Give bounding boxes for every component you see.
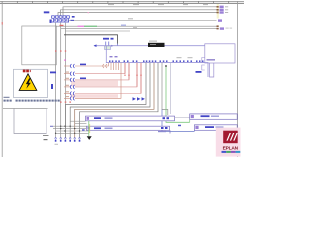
stub label: [44, 139, 48, 140]
green PE bottom wire: [88, 121, 90, 136]
tiny mark bottom left: [55, 143, 59, 146]
relay K1 label: [103, 38, 114, 40]
pink wire halos: [125, 63, 141, 93]
wire label between strips: [178, 125, 181, 127]
connector arcs: [70, 64, 74, 100]
cable label X: [50, 72, 56, 74]
strip B exit stub: [169, 130, 171, 133]
cable fan wire 3 pink: [75, 63, 129, 80]
terminal strip D: [194, 125, 237, 131]
plc box black: [148, 43, 165, 47]
control wire dark: [64, 35, 118, 44]
svg-text:EPLAN: EPLAN: [223, 146, 239, 152]
connector left hooks: [202, 58, 205, 71]
pink wire marks: [124, 75, 141, 76]
border tick red: [2, 22, 3, 25]
terminal arrow L1: [217, 6, 219, 8]
eplan logo pink bg: [216, 128, 241, 157]
terminal text smudges right: [225, 6, 228, 13]
crossing line into A1: [70, 120, 85, 122]
right drop wire gray: [162, 63, 168, 115]
cable stub v4: [115, 63, 117, 70]
wire label L1: [80, 64, 86, 66]
plc box highlight: [150, 44, 156, 45]
stub into box D: [193, 130, 195, 131]
breaker aux text: [50, 16, 75, 23]
cable stubs left: [64, 66, 70, 98]
junction dot K1: [111, 45, 113, 47]
blue arrows mid: [133, 97, 145, 100]
plc box top label: [149, 41, 157, 42]
terminal arrow L2: [217, 9, 219, 11]
bus wire L3: [58, 13, 217, 16]
cable fan wire 4 pink: [75, 63, 137, 87]
cable stub v3: [113, 63, 115, 70]
wire W label: [196, 71, 202, 73]
strip C end marks: [191, 115, 194, 118]
lavender drop wire: [106, 46, 208, 77]
strip B end marks: [87, 127, 90, 130]
cable stub v5: [118, 63, 120, 70]
wire end rings: [55, 138, 80, 140]
return wire 3 brown: [75, 63, 154, 138]
mid arcs on line1: [103, 64, 107, 68]
eplan red box: [223, 131, 238, 144]
eplan stripes: [226, 133, 237, 141]
strip B aux label: [82, 129, 85, 130]
ground symbol: [87, 136, 92, 140]
warning title: [23, 70, 31, 73]
bottom left stub wire: [43, 134, 49, 136]
warning box: [14, 69, 48, 97]
terminal block L1: [220, 6, 224, 8]
warning tiny text row: [4, 97, 60, 102]
strip D end marks: [195, 126, 198, 129]
cable highlight band 2: [71, 94, 118, 98]
yellow PE mark: [89, 124, 91, 133]
cable highlight band 1: [71, 81, 118, 87]
note empty box: [14, 108, 47, 133]
breaker group symbols: [52, 16, 70, 22]
cable fan wire 1: [75, 63, 109, 66]
bottom wire labels: [55, 140, 80, 142]
bus lavender 1: [94, 45, 205, 47]
tiny label mid bus: [121, 25, 126, 26]
wire label L2: [80, 78, 86, 80]
N line label: [128, 18, 133, 19]
cable fan wire 5 pink: [75, 63, 141, 94]
feeder wire down A: [55, 23, 57, 138]
bus wire N: [68, 20, 217, 22]
link strip A to box C: [175, 117, 190, 119]
terminal arrow y29: [217, 28, 219, 30]
stub into box C: [189, 119, 191, 122]
wire number labels above bus2: [109, 60, 204, 62]
arrow head lavender: [94, 44, 97, 47]
red label near cluster: [60, 25, 64, 26]
return wire 4: [80, 63, 159, 138]
ruler text smudges: [108, 4, 208, 5]
feeder wire down C: [64, 23, 66, 138]
green junction dot: [165, 65, 167, 67]
ruler ticks: [2, 1, 229, 3]
cable fan wire 2 pink: [75, 63, 125, 74]
left page border: [1, 1, 3, 157]
cable label vertical: [51, 84, 53, 89]
faint drop wire: [169, 63, 171, 114]
terminal block N: [218, 19, 222, 21]
pink dot top: [88, 12, 90, 13]
wire segment magenta: [78, 25, 85, 27]
return wire 2: [70, 63, 150, 138]
terminal block L2: [220, 9, 224, 11]
structure inner box top-left: [22, 26, 57, 65]
relay pin text: [110, 56, 118, 57]
highlight column yellow: [217, 4, 219, 19]
tiny gray text above labels: [177, 57, 182, 58]
warning triangle: [19, 74, 37, 91]
top ruler band line upper: [0, 0, 244, 2]
green PE wire: [166, 66, 190, 122]
cable fan wire 6: [75, 63, 121, 99]
feeder wire down B: [60, 23, 62, 138]
right drop wire to box D: [162, 110, 194, 132]
terminal strip A: [86, 116, 175, 121]
strip B bottom label: [158, 131, 166, 132]
branch wire y31.2: [65, 30, 130, 32]
strip A text: [94, 117, 101, 119]
cable stub v2: [110, 63, 112, 70]
junction dots on crossings: [55, 126, 80, 135]
breaker F1 label: [44, 11, 50, 13]
branch wire y26: [56, 25, 217, 27]
crossing line into A2: [75, 123, 87, 125]
strip C text: [201, 115, 210, 117]
crossing line into B2: [56, 132, 89, 134]
magenta dot: [64, 60, 65, 61]
connector legs: [210, 63, 214, 77]
top ruler band line lower: [0, 2, 244, 4]
wire segment green: [84, 25, 97, 27]
branch wire y28.7: [61, 28, 217, 30]
terminal strip B: [86, 126, 169, 130]
bus wire L1: [63, 7, 217, 16]
connector box right: [205, 44, 235, 63]
tiny label mid bus2: [133, 27, 137, 28]
return wire 1: [65, 63, 146, 138]
strip A end marks: [87, 117, 90, 120]
bottom tiny text: [50, 126, 53, 127]
connector box inner text: [207, 59, 216, 61]
strip B text: [94, 127, 101, 129]
lightning bolt: [26, 78, 31, 88]
terminal strip C: [190, 114, 238, 119]
eplan rainbow bar: [222, 151, 241, 153]
bus wire L2: [61, 10, 217, 16]
note line above box: [3, 107, 48, 109]
red junction dots: [55, 50, 71, 102]
crossing line into B1: [53, 125, 86, 127]
strip D text: [205, 126, 214, 128]
bus lavender 2: [106, 62, 208, 64]
terminal block L3: [220, 11, 224, 13]
terminal arrow L3: [217, 12, 219, 14]
contactor contact: [105, 42, 118, 50]
right page border: [237, 1, 239, 157]
cable core tiny labels: [66, 72, 69, 98]
